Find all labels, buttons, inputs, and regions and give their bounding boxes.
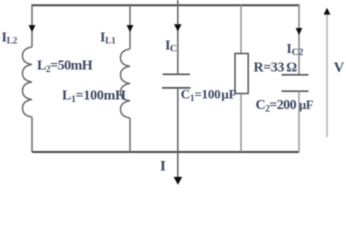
wire C1 branch bottom through rail [177, 88, 179, 178]
wire L2 branch top [31, 4, 33, 47]
arrowhead I_L1 [127, 25, 134, 32]
wire R branch bottom [240, 94, 242, 153]
svg-text:L2=50mH: L2=50mH [37, 58, 93, 75]
svg-text:V: V [334, 60, 345, 76]
svg-text:C: C [170, 43, 177, 54]
voltage arrow V [326, 14, 328, 138]
resistor R box [235, 54, 248, 94]
svg-text:L1=100mH: L1=100mH [62, 88, 126, 105]
svg-text:C2=200: C2=200 [256, 98, 297, 115]
wire C2 branch top [298, 4, 300, 75]
wire L1 branch top [129, 4, 131, 49]
arrowhead I_L2 [29, 25, 36, 32]
arrowhead I_C [174, 24, 182, 31]
wire R branch top [240, 4, 242, 54]
svg-text:C1=100: C1=100 [181, 86, 221, 103]
svg-text:R=33: R=33 [254, 61, 285, 76]
capacitor C1 bottom plate [162, 87, 191, 89]
arrowhead I bottom [174, 177, 183, 185]
wire L1 branch bottom [129, 118, 131, 152]
wire C1 branch from top edge [177, 0, 179, 74]
capacitor C2 bottom plate [282, 90, 309, 92]
wire bottom rail [32, 151, 299, 153]
svg-text:C2: C2 [292, 48, 304, 58]
svg-text:Ω: Ω [286, 60, 297, 75]
capacitor C2 top plate [282, 74, 309, 76]
svg-text:L1: L1 [105, 36, 116, 46]
wire top rail [32, 4, 299, 6]
capacitor C1 top plate [163, 73, 191, 75]
arrowhead I_C2 [296, 28, 303, 35]
svg-text:µF: µF [221, 86, 236, 101]
inductor L2 [23, 47, 33, 117]
wire L2 branch bottom [31, 117, 33, 152]
wire C2 branch bottom [298, 91, 300, 152]
svg-text:I: I [160, 159, 166, 175]
svg-text:L2: L2 [7, 36, 18, 46]
inductor L1 [121, 49, 131, 118]
svg-text:µF: µF [299, 98, 314, 112]
